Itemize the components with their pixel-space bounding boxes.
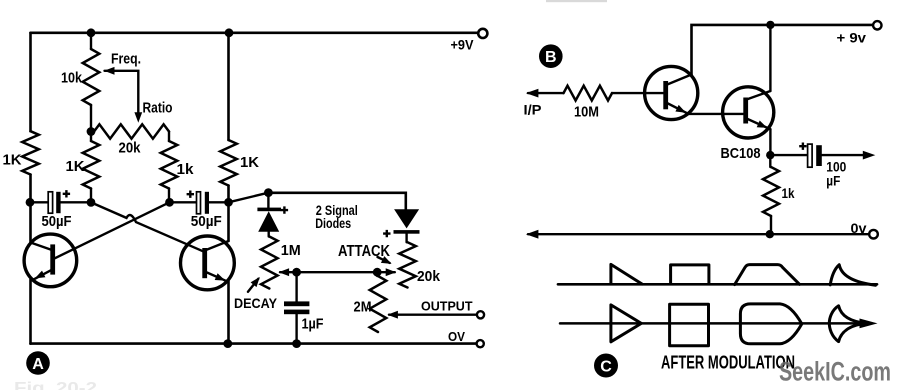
- resistor VR5 2M: [376, 272, 378, 276]
- svg-text:+ 9v: + 9v: [837, 30, 867, 46]
- Freq. wiper arrow: [105, 71, 139, 113]
- capacitor C3 1uF: [295, 272, 297, 301]
- svg-text:Diodes: Diodes: [315, 215, 351, 231]
- wire Q1 base cross-coupling from C2: [53, 202, 170, 259]
- svg-text:+9V: +9V: [451, 38, 474, 53]
- svg-text:1µF: 1µF: [302, 316, 324, 333]
- I/P input arrow: [528, 92, 564, 94]
- node: 1uF top junction: [292, 268, 301, 277]
- svg-text:C: C: [600, 359, 612, 376]
- svg-text:B: B: [545, 49, 557, 66]
- resistor VR2 20k Ratio (horizontal): [94, 124, 169, 138]
- svg-text:20k: 20k: [417, 268, 441, 285]
- wire 0v bottom rail (B): [528, 233, 869, 235]
- waveform row2 fin (modulated decay): [829, 306, 867, 342]
- node: 1uF bottom on 0V rail: [292, 339, 301, 348]
- resistor R3 1k (Q1 base): [161, 141, 178, 189]
- capacitor C2 50uF: [170, 201, 229, 203]
- transistor Q3: [645, 66, 698, 119]
- waveform row1 decay fin: [830, 265, 875, 286]
- waveform row2 triangle (modulated ramp): [611, 305, 641, 342]
- node: 1k bottom on 0v rail: [766, 230, 774, 238]
- waveform row1 ramp (sawtooth): [611, 264, 642, 284]
- wire 10k to rail: [90, 33, 92, 49]
- svg-text:10M: 10M: [574, 104, 599, 121]
- svg-text:50µF: 50µF: [42, 213, 72, 230]
- diode D1 (decay, pointing up): [257, 208, 281, 212]
- diode D2 (attack, pointing down): [394, 209, 419, 228]
- wire Q4 emitter down: [769, 129, 771, 155]
- resistor R6 1k: [769, 155, 771, 167]
- wire right rail upper: [227, 33, 230, 140]
- waveform row1 baseline: [558, 283, 877, 286]
- transistor Q1 (astable left): [24, 234, 77, 287]
- svg-text:50µF: 50µF: [191, 213, 222, 230]
- svg-text:1K: 1K: [240, 154, 259, 171]
- svg-text:0v: 0v: [851, 220, 867, 236]
- svg-text:2M: 2M: [354, 299, 372, 316]
- waveform row2 square (modulated pulse): [670, 304, 709, 346]
- wire node D down to decay diode: [267, 193, 269, 208]
- capacitor C1 50uF: [31, 201, 92, 203]
- node: 20k left junction: [87, 127, 96, 136]
- wire Q3 emitter to Q4 base: [689, 113, 744, 115]
- node: emitter rail on 0V: [223, 339, 232, 348]
- node: Q1 collector / C1 / R1 junction: [26, 198, 35, 207]
- terminal +9V: [478, 29, 487, 38]
- wire left rail to Q1 collector: [29, 175, 32, 243]
- node: C1 right / R2 bottom: [87, 198, 96, 207]
- wire 10k bottom to 20k node: [90, 105, 92, 132]
- badge A: [26, 351, 50, 375]
- wire node D to attack diode: [268, 193, 405, 210]
- node: Q4 collector on +9v rail: [766, 21, 774, 29]
- wire Q3 collector up and top rail: [692, 25, 873, 75]
- wire 0V bottom rail (section A): [31, 342, 478, 345]
- resistor VR4 20k ATTACK: [399, 242, 416, 287]
- svg-text:OV: OV: [448, 329, 465, 344]
- OUTPUT wire and arrow: [389, 314, 477, 316]
- svg-text:1K: 1K: [3, 152, 22, 169]
- svg-text:Fig. 20-2: Fig. 20-2: [14, 380, 97, 390]
- svg-text:I/P: I/P: [524, 102, 542, 118]
- svg-text:ATTACK: ATTACK: [338, 243, 390, 260]
- svg-text:SeekIC.com: SeekIC.com: [779, 357, 891, 387]
- waveform row2 lens (modulated trapezoid): [740, 304, 801, 344]
- node: Q2 collector / C2 right / diode feed: [224, 198, 233, 207]
- wire Q2 emitter to 0V rail: [227, 281, 230, 343]
- ATTACK label and arrow: [378, 257, 390, 263]
- svg-text:1K: 1K: [66, 158, 85, 175]
- resistor R1 1K (left rail): [22, 131, 39, 174]
- transistor Q4 BC108: [723, 87, 774, 138]
- waveform row1 square pulse: [671, 265, 709, 284]
- svg-text:Ratio: Ratio: [143, 100, 173, 117]
- badge B: [539, 44, 563, 68]
- capacitor C4 100uF: [770, 154, 807, 156]
- transistor Q2 (astable right): [181, 236, 235, 290]
- svg-text:BC108: BC108: [721, 145, 761, 162]
- wire left rail upper: [29, 33, 32, 131]
- resistor VR3 1M DECAY: [261, 237, 278, 289]
- svg-text:1M: 1M: [281, 242, 301, 259]
- terminal +9v (B): [873, 21, 881, 29]
- badge C: [594, 354, 618, 378]
- svg-text:10k: 10k: [61, 70, 83, 87]
- wire 10M to Q3 base: [612, 92, 663, 94]
- node D: diodes junction: [264, 188, 273, 197]
- wire Q1 emitter to 0V rail: [29, 280, 32, 344]
- resistor R5 10M: [564, 86, 613, 101]
- resistor VR1 10k Freq.: [83, 49, 100, 105]
- svg-text:20k: 20k: [119, 140, 142, 157]
- terminal 0v (B): [869, 230, 878, 239]
- resistor R2 1K (Q2 base): [83, 141, 100, 189]
- waveform row1 trapezoid: [735, 265, 800, 285]
- wiper link wire (decay-attack): [280, 271, 395, 273]
- node: C2 left / R3 bottom: [165, 198, 174, 207]
- wire Q4 collector to rail: [769, 25, 771, 91]
- svg-text:A: A: [32, 356, 44, 373]
- terminal OV: [477, 340, 484, 347]
- node: 2M top junction: [373, 268, 382, 277]
- node: 10k top on +9V rail: [87, 28, 96, 37]
- svg-text:OUTPUT: OUTPUT: [421, 298, 473, 313]
- svg-text:DECAY: DECAY: [234, 295, 278, 311]
- svg-text:1k: 1k: [782, 185, 795, 201]
- wire right rail to Q2 collector: [227, 186, 230, 242]
- waveform row2 centre line with arrow: [560, 322, 862, 325]
- wire Q2 base cross-coupling from C1 (with hop): [91, 202, 203, 251]
- svg-text:µF: µF: [826, 172, 840, 188]
- wire Q2 collector to node D: [229, 193, 269, 203]
- svg-text:Freq.: Freq.: [111, 51, 141, 68]
- terminal OUTPUT: [477, 311, 484, 318]
- node: top rail right junction: [225, 28, 234, 37]
- resistor R4 1K (Q2 collector): [220, 140, 237, 186]
- node: Q4 emitter junction: [766, 151, 774, 159]
- wire +9V top rail (section A): [31, 31, 479, 34]
- svg-text:AFTER MODULATION: AFTER MODULATION: [661, 352, 795, 372]
- DECAY label and arrow: [248, 279, 258, 292]
- svg-text:1k: 1k: [177, 161, 195, 178]
